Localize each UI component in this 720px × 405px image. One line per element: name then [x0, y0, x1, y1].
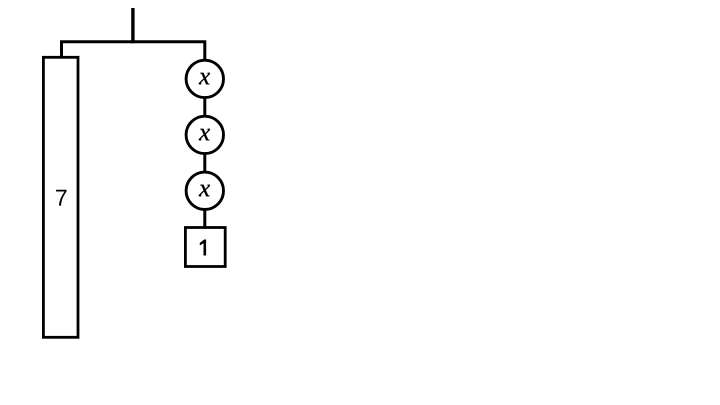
node circle x2: [186, 116, 223, 153]
wire beam (horizontal crossbar with end drop wires): [62, 42, 205, 60]
node label 7: [56, 190, 66, 206]
node label 1: [200, 240, 206, 256]
node label x2: [199, 129, 210, 140]
node circle x3: [186, 172, 223, 209]
node circle x1: [186, 60, 223, 97]
wire mast (top vertical support): [131, 8, 134, 43]
node label x1: [199, 73, 210, 84]
node weight square labelled 1: [185, 228, 225, 267]
node weight rectangle labelled 7: [43, 57, 78, 337]
node label x3: [199, 185, 210, 196]
wire chain (vertical string through circles to square): [203, 58, 206, 228]
